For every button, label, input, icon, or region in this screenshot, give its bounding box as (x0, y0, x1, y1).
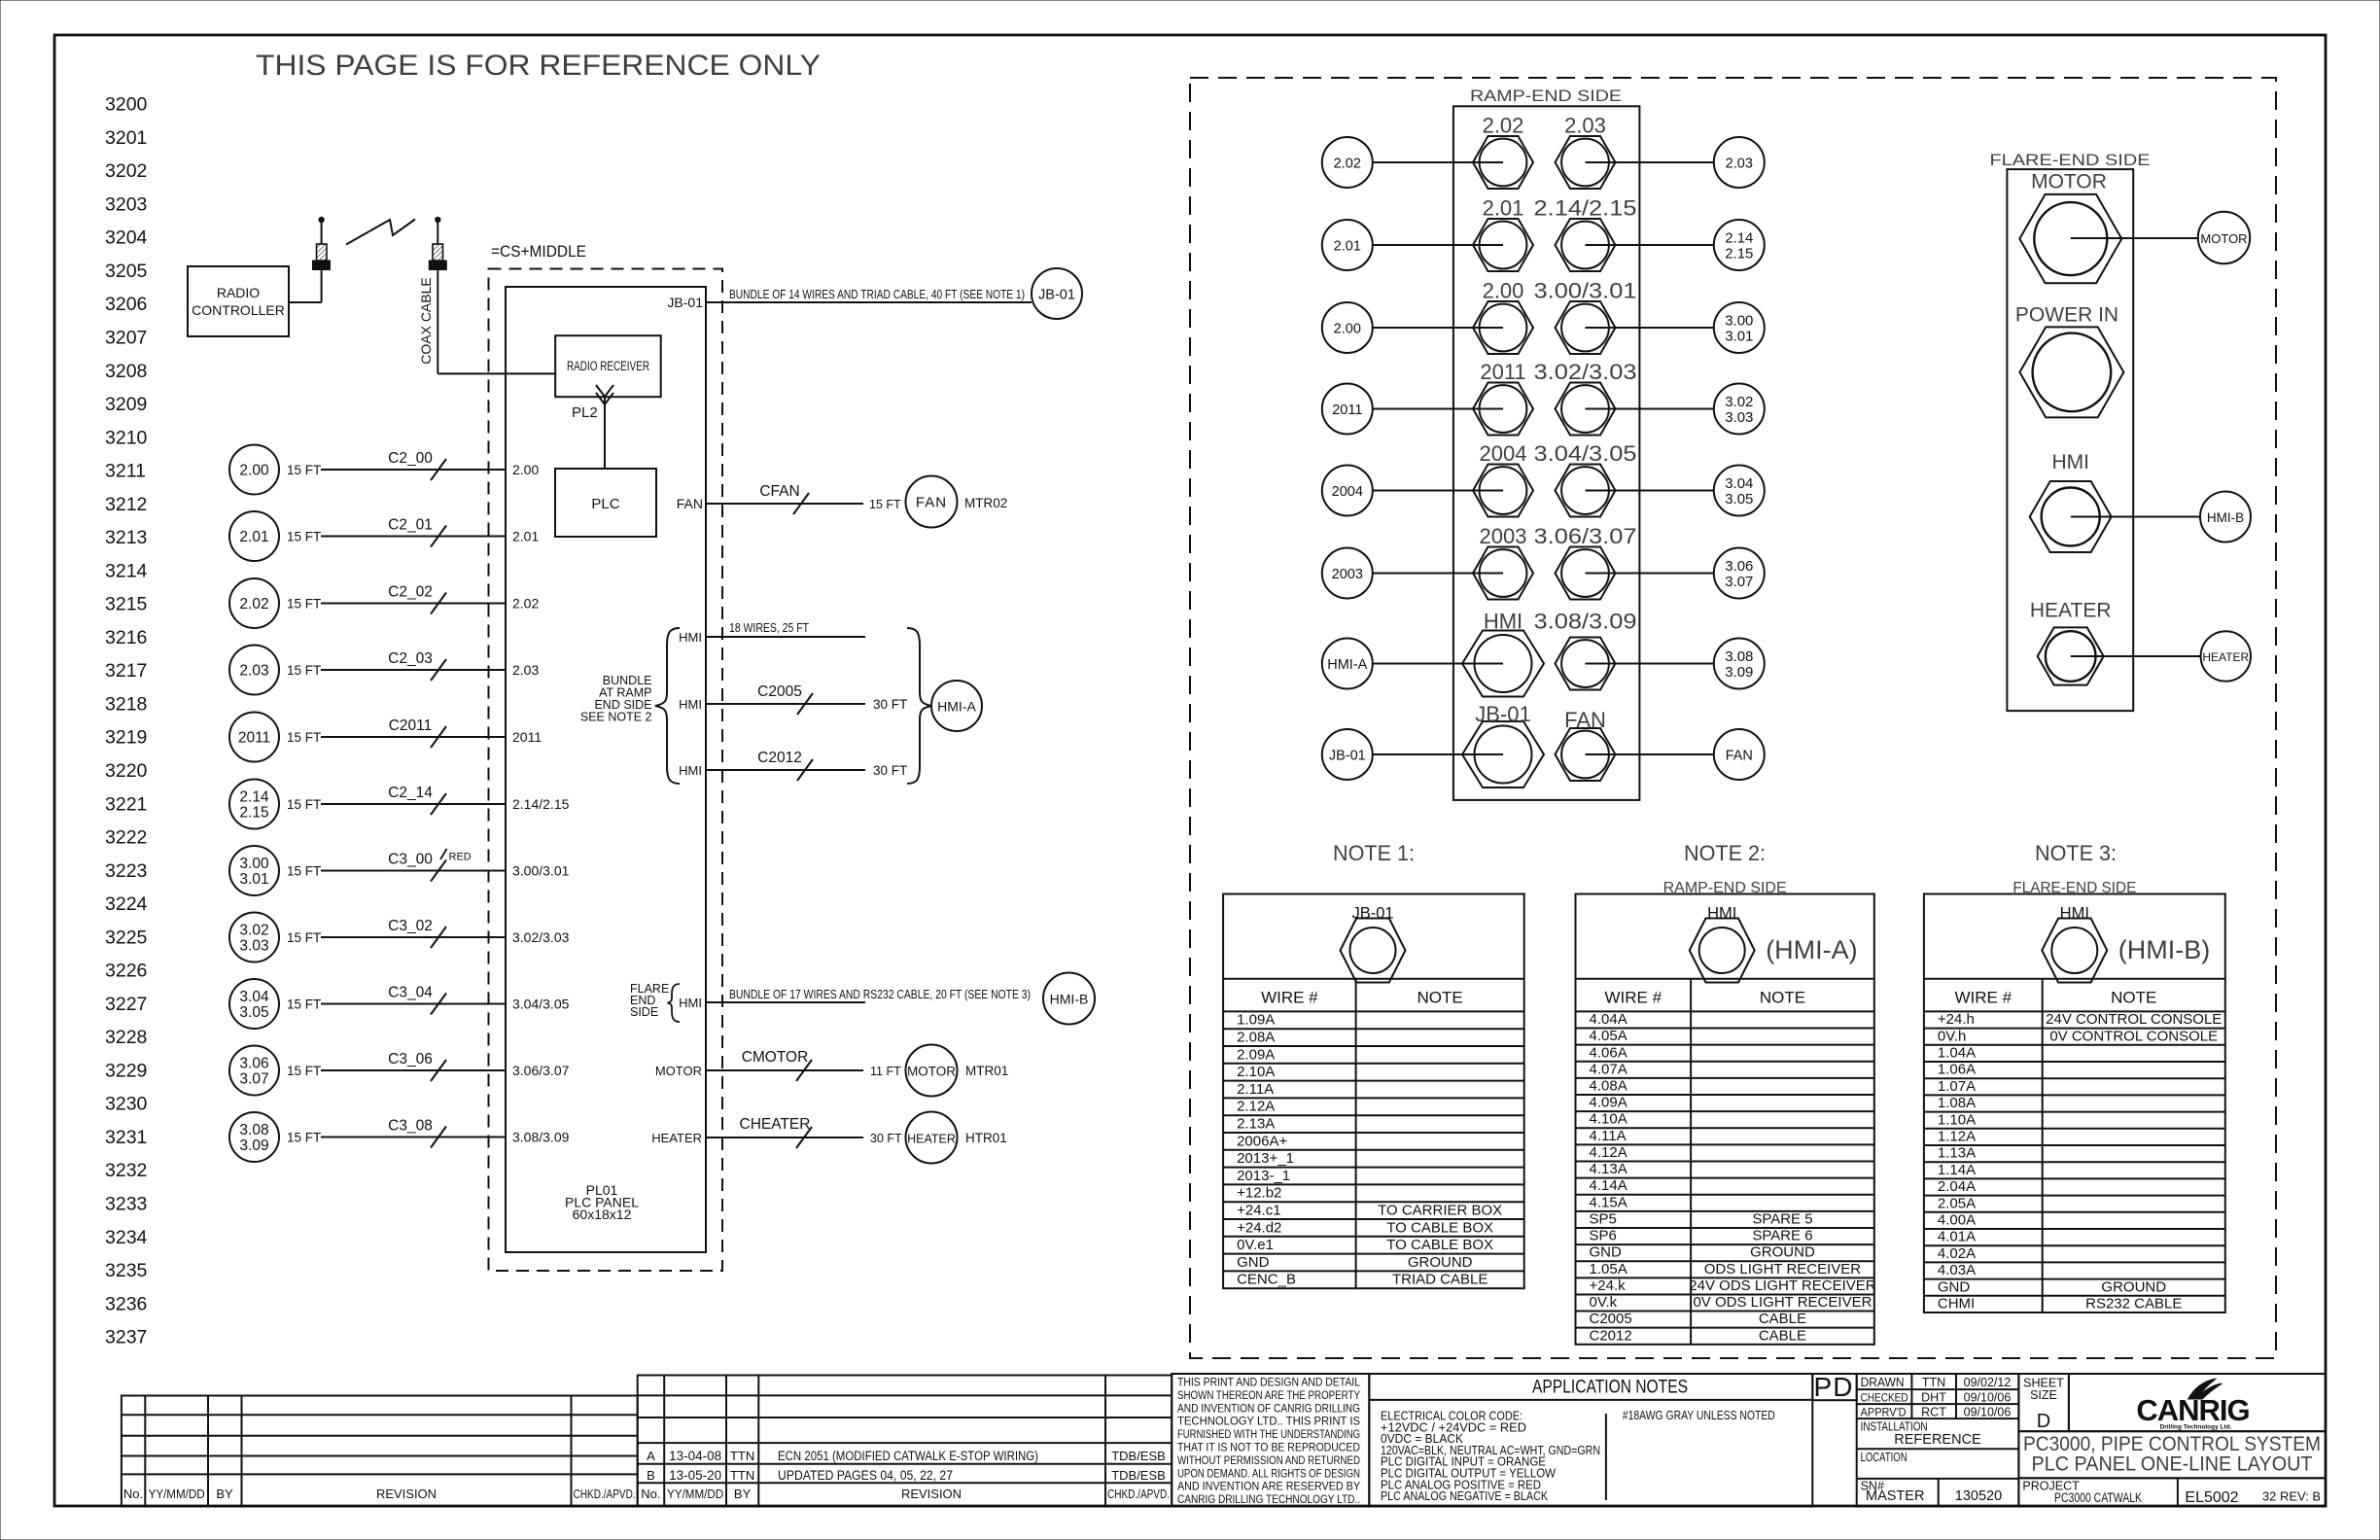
svg-text:CHEATER: CHEATER (740, 1116, 811, 1133)
motor circle MOTOR MTR01 (906, 1045, 958, 1097)
svg-text:C3_06: C3_06 (388, 1051, 433, 1067)
svg-text:2.11A: 2.11A (1237, 1081, 1274, 1098)
svg-text:C2012: C2012 (1590, 1327, 1632, 1344)
svg-text:3.06/3.07: 3.06/3.07 (512, 1063, 570, 1078)
svg-text:3211: 3211 (105, 461, 146, 482)
svg-text:WIRE #: WIRE # (1261, 989, 1318, 1007)
svg-text:HEATER: HEATER (907, 1133, 956, 1146)
svg-text:C3_04: C3_04 (388, 985, 433, 1001)
svg-text:TTN: TTN (1922, 1376, 1945, 1389)
svg-text:REVISION: REVISION (376, 1487, 437, 1501)
svg-text:RAMP-END SIDE: RAMP-END SIDE (1470, 87, 1622, 105)
svg-text:15 FT: 15 FT (287, 463, 321, 477)
svg-text:POWER IN: POWER IN (2015, 304, 2118, 327)
svg-text:15 FT: 15 FT (287, 597, 321, 612)
svg-text:3217: 3217 (105, 660, 147, 682)
svg-text:UPDATED PAGES 04, 05, 22, 27: UPDATED PAGES 04, 05, 22, 27 (778, 1468, 953, 1483)
svg-text:RED: RED (449, 852, 472, 863)
svg-text:3232: 3232 (105, 1160, 147, 1181)
svg-text:NOTE 1:: NOTE 1: (1333, 841, 1415, 865)
svg-text:TDB/ESB: TDB/ESB (1111, 1468, 1166, 1483)
svg-text:TTN: TTN (730, 1449, 754, 1463)
svg-text:3200: 3200 (105, 94, 148, 116)
svg-text:2.01: 2.01 (239, 529, 268, 545)
svg-text:SPARE 6: SPARE 6 (1752, 1228, 1812, 1244)
svg-text:3233: 3233 (105, 1194, 147, 1215)
svg-text:3.02: 3.02 (239, 923, 268, 939)
svg-text:3.05: 3.05 (1725, 491, 1753, 507)
svg-text:3.02/3.03: 3.02/3.03 (1534, 360, 1637, 384)
ramp row 2003/3.06/3.07 (1322, 548, 1373, 599)
svg-text:3218: 3218 (105, 693, 147, 715)
svg-text:MOTOR: MOTOR (655, 1064, 702, 1078)
svg-text:15 FT: 15 FT (287, 864, 321, 879)
svg-text:CHMI: CHMI (1938, 1296, 1975, 1312)
input wire 3.08/3.09 (229, 1112, 279, 1162)
svg-text:3.02/3.03: 3.02/3.03 (512, 929, 570, 945)
svg-text:HEATER: HEATER (2030, 599, 2112, 621)
svg-text:3.07: 3.07 (1725, 574, 1753, 590)
svg-text:HMI: HMI (679, 996, 702, 1010)
svg-text:4.14A: 4.14A (1590, 1177, 1627, 1194)
svg-text:3.09: 3.09 (1725, 664, 1753, 681)
svg-text:MOTOR: MOTOR (2031, 170, 2107, 192)
ramp row 2.02/2.03 (1322, 137, 1373, 188)
svg-text:3201: 3201 (105, 127, 147, 149)
svg-text:130520: 130520 (1955, 1488, 2002, 1504)
svg-text:B: B (647, 1468, 655, 1483)
svg-text:LOCATION: LOCATION (1861, 1451, 1907, 1464)
svg-text:2.04A: 2.04A (1938, 1178, 1976, 1195)
svg-text:HMI-A: HMI-A (1327, 657, 1367, 673)
svg-text:AND INVENTION OF CANRIG DRILLI: AND INVENTION OF CANRIG DRILLING (1177, 1401, 1360, 1415)
PLC box (555, 469, 656, 537)
svg-text:4.08A: 4.08A (1590, 1078, 1627, 1095)
svg-text:3203: 3203 (105, 193, 147, 215)
svg-text:CFAN: CFAN (759, 483, 799, 500)
svg-text:2011: 2011 (512, 729, 542, 745)
svg-text:SP6: SP6 (1590, 1228, 1617, 1244)
svg-text:4.13A: 4.13A (1590, 1161, 1627, 1177)
svg-text:15 FT: 15 FT (287, 1064, 321, 1078)
svg-text:4.07A: 4.07A (1590, 1061, 1627, 1077)
svg-text:2.01: 2.01 (512, 529, 539, 544)
svg-text:THIS PAGE IS FOR REFERENCE ONL: THIS PAGE IS FOR REFERENCE ONLY (256, 50, 821, 82)
ramp row 2004/3.04/3.05 (1322, 466, 1373, 516)
input wire 2.03 (229, 646, 279, 695)
svg-text:3.02: 3.02 (1725, 394, 1753, 410)
svg-text:WIRE #: WIRE # (1605, 989, 1662, 1007)
svg-text:HMI: HMI (679, 763, 702, 778)
svg-text:AND INVENTION ARE RESERVED BY: AND INVENTION ARE RESERVED BY (1177, 1480, 1360, 1493)
dashed detail-view border (1190, 78, 2276, 1358)
ramp row 2.00/3.00/3.01 (1322, 302, 1373, 353)
drawing title (2018, 1431, 2326, 1478)
svg-text:+24.d2: +24.d2 (1237, 1219, 1281, 1236)
svg-text:THIS PRINT AND DESIGN AND DETA: THIS PRINT AND DESIGN AND DETAIL (1177, 1376, 1360, 1389)
svg-text:2.15: 2.15 (1725, 246, 1753, 262)
svg-text:3228: 3228 (105, 1027, 147, 1048)
svg-text:2.00: 2.00 (512, 462, 539, 477)
antenna 2 (436, 218, 439, 222)
circle HEATER (2201, 631, 2251, 681)
project row (2018, 1478, 2326, 1506)
svg-text:2.03: 2.03 (1564, 114, 1606, 138)
svg-text:2.03: 2.03 (239, 663, 268, 680)
svg-text:CONTROLLER: CONTROLLER (192, 302, 285, 318)
svg-text:18 WIRES, 25 FT: 18 WIRES, 25 FT (729, 620, 809, 635)
svg-text:15 FT: 15 FT (287, 930, 321, 945)
svg-text:REVISION: REVISION (901, 1487, 962, 1501)
svg-text:RS232 CABLE: RS232 CABLE (2085, 1296, 2182, 1312)
svg-text:JB-01: JB-01 (1351, 904, 1393, 922)
svg-text:Drilling Technology Ltd.: Drilling Technology Ltd. (2160, 1424, 2232, 1431)
svg-text:FLARE-END SIDE: FLARE-END SIDE (1990, 151, 2151, 169)
svg-text:15 FT: 15 FT (287, 797, 321, 812)
svg-text:TO CABLE BOX: TO CABLE BOX (1386, 1237, 1493, 1253)
svg-text:2.02: 2.02 (512, 596, 539, 612)
svg-text:MOTOR: MOTOR (907, 1065, 956, 1079)
antenna connector PL2 (604, 397, 606, 469)
svg-text:3220: 3220 (105, 760, 148, 782)
svg-text:0V.e1: 0V.e1 (1237, 1237, 1274, 1253)
disclaimer text box (1172, 1374, 1369, 1507)
svg-text:C2011: C2011 (389, 717, 433, 734)
svg-text:2.12A: 2.12A (1237, 1099, 1275, 1115)
input wire 2.00 (229, 445, 279, 495)
svg-text:4.01A: 4.01A (1938, 1229, 1976, 1245)
svg-text:1.12A: 1.12A (1938, 1129, 1976, 1145)
svg-text:(HMI-B): (HMI-B) (2118, 935, 2210, 964)
svg-text:SP5: SP5 (1590, 1210, 1617, 1227)
application notes box (1369, 1374, 1812, 1507)
revision table left (122, 1396, 638, 1507)
svg-text:RADIO: RADIO (217, 285, 260, 300)
svg-text:3.01: 3.01 (239, 871, 268, 888)
ramp row 2.01/2.14/2.15 (1322, 220, 1373, 270)
svg-text:CMOTOR: CMOTOR (742, 1049, 809, 1066)
svg-text:FAN: FAN (677, 496, 703, 511)
svg-text:2.13A: 2.13A (1237, 1116, 1275, 1133)
svg-text:NOTE 3:: NOTE 3: (2035, 841, 2117, 865)
connector circle HMI-A (931, 681, 982, 731)
svg-text:GND: GND (1237, 1254, 1270, 1271)
svg-text:2.14/2.15: 2.14/2.15 (1534, 196, 1637, 221)
svg-text:3.03: 3.03 (1725, 409, 1753, 426)
svg-text:HMI: HMI (2051, 451, 2089, 473)
svg-text:JB-01: JB-01 (1475, 702, 1530, 726)
svg-text:24V ODS LIGHT RECEIVER: 24V ODS LIGHT RECEIVER (1689, 1277, 1875, 1294)
svg-text:FURNISHED WITH THE UNDERSTANDI: FURNISHED WITH THE UNDERSTANDING (1177, 1427, 1360, 1441)
svg-text:3.04/3.05: 3.04/3.05 (512, 997, 570, 1012)
svg-text:2.14/2.15: 2.14/2.15 (512, 796, 570, 812)
svg-text:TTN: TTN (730, 1468, 754, 1483)
svg-text:NOTE: NOTE (1417, 989, 1463, 1007)
svg-text:HEATER: HEATER (651, 1131, 702, 1145)
svg-text:C2_14: C2_14 (388, 785, 433, 801)
coax cable wire (437, 270, 438, 374)
svg-text:09/10/06: 09/10/06 (1964, 1405, 2012, 1418)
svg-text:0V CONTROL CONSOLE: 0V CONTROL CONSOLE (2049, 1028, 2218, 1044)
motor circle FAN MTR02 (906, 476, 958, 528)
svg-text:3215: 3215 (105, 594, 148, 615)
input wire 2011 (229, 713, 279, 762)
svg-text:2003: 2003 (1480, 524, 1527, 548)
svg-text:HMI: HMI (679, 697, 702, 712)
svg-text:+24.h: +24.h (1938, 1011, 1975, 1028)
svg-text:4.04A: 4.04A (1590, 1011, 1627, 1028)
svg-text:NOTE: NOTE (1760, 989, 1805, 1007)
svg-text:3.08/3.09: 3.08/3.09 (512, 1130, 570, 1145)
svg-text:PLC ANALOG NEGATIVE = BLACK: PLC ANALOG NEGATIVE = BLACK (1381, 1488, 1548, 1503)
svg-text:C2005: C2005 (1590, 1311, 1632, 1327)
radio receiver box (555, 335, 661, 397)
svg-text:C2_02: C2_02 (388, 584, 433, 601)
svg-text:=CS+MIDDLE: =CS+MIDDLE (491, 243, 586, 261)
svg-text:REFERENCE: REFERENCE (1894, 1432, 1981, 1448)
svg-text:#18AWG GRAY UNLESS NOTED: #18AWG GRAY UNLESS NOTED (1623, 1408, 1775, 1422)
svg-text:2.01: 2.01 (1334, 239, 1361, 255)
svg-text:3209: 3209 (105, 394, 147, 415)
svg-text:3225: 3225 (105, 927, 148, 948)
svg-text:C3_08: C3_08 (388, 1118, 433, 1135)
svg-text:GROUND: GROUND (1750, 1244, 1815, 1261)
svg-text:13-05-20: 13-05-20 (669, 1468, 721, 1483)
svg-text:HMI: HMI (1707, 904, 1736, 922)
svg-text:WIRE #: WIRE # (1955, 989, 2012, 1007)
PLC panel PL01 box (506, 287, 706, 1252)
svg-text:4.06A: 4.06A (1590, 1044, 1627, 1061)
svg-text:GND: GND (1938, 1278, 1971, 1295)
svg-text:CABLE: CABLE (1759, 1311, 1806, 1327)
svg-text:3226: 3226 (105, 961, 147, 982)
svg-text:3224: 3224 (105, 893, 148, 915)
svg-text:SEE NOTE 2: SEE NOTE 2 (580, 711, 652, 724)
svg-text:MTR02: MTR02 (964, 496, 1007, 510)
svg-text:CHECKED: CHECKED (1861, 1390, 1908, 1404)
svg-text:2.14: 2.14 (239, 789, 269, 806)
svg-text:4.10A: 4.10A (1590, 1111, 1627, 1128)
svg-text:2011: 2011 (1480, 360, 1525, 384)
svg-text:2.09A: 2.09A (1237, 1046, 1275, 1063)
svg-text:3227: 3227 (105, 994, 147, 1015)
svg-text:HMI: HMI (2060, 904, 2089, 922)
svg-text:FAN: FAN (1726, 749, 1753, 764)
svg-text:3.04: 3.04 (239, 989, 269, 1005)
svg-text:3210: 3210 (105, 427, 148, 448)
heater circle HEATER HTR01 (906, 1112, 958, 1164)
svg-text:D: D (2037, 1411, 2050, 1432)
svg-text:C2_01: C2_01 (388, 517, 433, 534)
CANRIG logo (2069, 1374, 2326, 1431)
svg-text:GROUND: GROUND (1408, 1254, 1473, 1271)
svg-text:+24.c1: +24.c1 (1237, 1203, 1280, 1219)
svg-text:WITHOUT PERMISSION AND RETURNE: WITHOUT PERMISSION AND RETURNED (1177, 1453, 1360, 1467)
svg-text:TECHNOLOGY LTD.. THIS PRINT IS: TECHNOLOGY LTD.. THIS PRINT IS (1177, 1415, 1360, 1428)
svg-text:MTR01: MTR01 (965, 1064, 1008, 1078)
svg-text:EL5002: EL5002 (2185, 1489, 2238, 1506)
PD stamp box (1812, 1374, 1856, 1400)
connector circle HMI-B (1043, 973, 1095, 1025)
svg-text:CABLE: CABLE (1759, 1327, 1806, 1344)
svg-text:15 FT: 15 FT (287, 730, 321, 745)
svg-text:3208: 3208 (105, 361, 147, 382)
svg-text:15 FT: 15 FT (287, 1131, 321, 1145)
svg-text:4.15A: 4.15A (1590, 1194, 1627, 1210)
wire: controller to antenna 1 (289, 301, 322, 303)
svg-text:1.13A: 1.13A (1938, 1145, 1976, 1162)
svg-text:3213: 3213 (105, 527, 147, 548)
svg-text:MASTER: MASTER (1866, 1488, 1924, 1504)
input wire 3.00/3.01 (229, 846, 279, 895)
svg-text:+12.b2: +12.b2 (1237, 1185, 1281, 1202)
svg-text:PC3000 CATWALK: PC3000 CATWALK (2054, 1490, 2142, 1505)
svg-text:HEATER: HEATER (2202, 650, 2249, 664)
svg-text:3231: 3231 (105, 1127, 147, 1148)
svg-text:2006A+: 2006A+ (1237, 1133, 1287, 1149)
svg-text:15 FT: 15 FT (287, 663, 321, 678)
svg-text:11 FT: 11 FT (870, 1065, 901, 1078)
svg-text:JB-01: JB-01 (667, 295, 703, 310)
svg-text:BY: BY (216, 1487, 233, 1501)
svg-text:0V ODS LIGHT RECEIVER: 0V ODS LIGHT RECEIVER (1693, 1294, 1872, 1311)
sheet size box (2018, 1374, 2069, 1431)
svg-text:3229: 3229 (105, 1060, 147, 1081)
svg-text:4.12A: 4.12A (1590, 1144, 1627, 1161)
svg-text:1.05A: 1.05A (1590, 1261, 1627, 1277)
svg-text:JB-01: JB-01 (1038, 288, 1075, 303)
svg-text:4.11A: 4.11A (1590, 1128, 1627, 1144)
svg-text:GROUND: GROUND (2101, 1278, 2166, 1295)
svg-text:3205: 3205 (105, 261, 148, 282)
svg-text:HMI: HMI (679, 630, 702, 645)
svg-text:3.06: 3.06 (239, 1056, 268, 1072)
HMI-A gathering brace (907, 628, 931, 784)
svg-text:60x18x12: 60x18x12 (573, 1207, 632, 1222)
ramp row HMI/3.08/3.09 (1322, 639, 1373, 689)
svg-text:MOTOR: MOTOR (2200, 231, 2247, 246)
svg-text:2.02: 2.02 (1334, 157, 1361, 172)
svg-text:2.14: 2.14 (1725, 230, 1753, 247)
svg-text:PLC PANEL ONE-LINE LAYOUT: PLC PANEL ONE-LINE LAYOUT (2032, 1453, 2313, 1476)
svg-text:1.07A: 1.07A (1938, 1078, 1976, 1095)
svg-text:2.15: 2.15 (239, 805, 268, 822)
svg-text:C2012: C2012 (757, 750, 802, 766)
svg-text:2.03: 2.03 (1726, 157, 1753, 172)
svg-text:NOTE: NOTE (2111, 989, 2156, 1007)
svg-text:2.02: 2.02 (239, 596, 268, 612)
svg-text:C2005: C2005 (757, 683, 802, 700)
svg-text:2003: 2003 (1332, 567, 1363, 582)
svg-text:CENC_B: CENC_B (1237, 1272, 1296, 1288)
svg-text:2.08A: 2.08A (1237, 1030, 1275, 1046)
svg-text:BUNDLE OF 17 WIRES AND RS232 C: BUNDLE OF 17 WIRES AND RS232 CABLE, 20 F… (729, 987, 1031, 1001)
svg-text:4.03A: 4.03A (1938, 1262, 1976, 1278)
svg-text:3.04: 3.04 (1725, 475, 1753, 492)
svg-text:30 FT: 30 FT (873, 697, 907, 712)
svg-text:3.04/3.05: 3.04/3.05 (1534, 441, 1637, 466)
svg-text:3.03: 3.03 (239, 938, 268, 955)
svg-text:SPARE 5: SPARE 5 (1752, 1210, 1812, 1227)
input wire 2.02 (229, 578, 279, 628)
revision table right (638, 1376, 1172, 1507)
svg-text:1.09A: 1.09A (1237, 1012, 1275, 1029)
svg-text:24V CONTROL CONSOLE: 24V CONTROL CONSOLE (2046, 1011, 2222, 1028)
svg-text:TO CABLE BOX: TO CABLE BOX (1386, 1219, 1493, 1236)
svg-text:3236: 3236 (105, 1293, 147, 1314)
svg-text:TDB/ESB: TDB/ESB (1111, 1449, 1166, 1463)
svg-text:UPON DEMAND. ALL RIGHTS OF DES: UPON DEMAND. ALL RIGHTS OF DESIGN (1177, 1466, 1360, 1480)
circle MOTOR (2198, 212, 2250, 263)
svg-text:3.00: 3.00 (1725, 313, 1753, 330)
svg-text:HTR01: HTR01 (965, 1131, 1007, 1145)
svg-text:3221: 3221 (105, 793, 147, 815)
svg-text:1.10A: 1.10A (1938, 1111, 1976, 1128)
svg-text:2.00: 2.00 (1483, 279, 1524, 303)
svg-text:15 FT: 15 FT (287, 997, 321, 1012)
svg-text:15 FT: 15 FT (287, 530, 321, 544)
svg-text:2013-_1: 2013-_1 (1237, 1168, 1290, 1184)
svg-text:COAX CABLE: COAX CABLE (418, 277, 434, 364)
svg-text:09/02/12: 09/02/12 (1964, 1376, 2012, 1389)
svg-text:HMI: HMI (1484, 610, 1522, 634)
svg-text:2.05A: 2.05A (1938, 1195, 1976, 1211)
svg-text:15 FT: 15 FT (869, 498, 901, 511)
svg-text:BUNDLE OF 14 WIRES AND TRIAD C: BUNDLE OF 14 WIRES AND TRIAD CABLE, 40 F… (729, 287, 1025, 301)
svg-text:3202: 3202 (105, 160, 147, 182)
svg-text:3235: 3235 (105, 1260, 148, 1281)
input wire 3.04/3.05 (229, 979, 279, 1029)
svg-text:3.09: 3.09 (239, 1137, 268, 1154)
svg-text:3.00/3.01: 3.00/3.01 (1534, 279, 1637, 303)
svg-text:C2_03: C2_03 (388, 650, 433, 667)
svg-text:3.06/3.07: 3.06/3.07 (1534, 524, 1637, 548)
svg-text:SIZE: SIZE (2030, 1388, 2057, 1402)
svg-text:2011: 2011 (1332, 402, 1362, 418)
svg-text:3.07: 3.07 (239, 1071, 268, 1088)
svg-text:3.08: 3.08 (239, 1122, 268, 1138)
input wire 2.14/2.15 (229, 780, 279, 829)
svg-text:+24.k: +24.k (1590, 1277, 1627, 1294)
ramp row 2011/3.02/3.03 (1322, 384, 1373, 435)
svg-text:FAN: FAN (916, 495, 947, 511)
svg-text:3234: 3234 (105, 1227, 148, 1248)
circle HMI-B (2200, 492, 2251, 542)
svg-text:3204: 3204 (105, 227, 148, 249)
svg-text:4.02A: 4.02A (1938, 1245, 1976, 1262)
svg-text:3222: 3222 (105, 827, 147, 849)
svg-text:32 REV: B: 32 REV: B (2262, 1489, 2321, 1504)
svg-text:CANRIG DRILLING TECHNOLOGY LTD: CANRIG DRILLING TECHNOLOGY LTD.. (1177, 1492, 1360, 1506)
svg-text:4.00A: 4.00A (1938, 1212, 1976, 1229)
svg-text:1.08A: 1.08A (1938, 1095, 1976, 1111)
svg-text:SHOWN THEREON ARE THE PROPERTY: SHOWN THEREON ARE THE PROPERTY (1177, 1388, 1360, 1402)
svg-text:13-04-08: 13-04-08 (669, 1449, 721, 1463)
radio controller RC1 (188, 266, 289, 336)
svg-text:4.05A: 4.05A (1590, 1028, 1627, 1044)
connector circle JB-01 (1032, 268, 1082, 319)
antenna 1 (319, 218, 323, 222)
svg-text:JB-01: JB-01 (1329, 749, 1366, 764)
input wire 3.06/3.07 (229, 1046, 279, 1096)
svg-text:2004: 2004 (1480, 441, 1527, 466)
svg-text:PL2: PL2 (572, 404, 598, 421)
svg-text:3223: 3223 (105, 860, 147, 882)
svg-text:C3_00: C3_00 (388, 852, 433, 868)
svg-text:3230: 3230 (105, 1094, 148, 1115)
svg-text:30 FT: 30 FT (873, 763, 907, 778)
svg-text:3207: 3207 (105, 327, 147, 348)
